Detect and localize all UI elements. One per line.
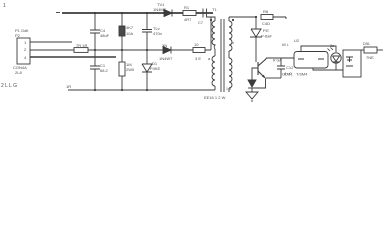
- svg-text:C12: C12: [286, 65, 294, 70]
- wire R9 right: [377, 49, 383, 51]
- diode D2 label: [159, 43, 173, 61]
- svg-text:470n: 470n: [153, 31, 162, 36]
- wire LED to J2: [336, 63, 343, 70]
- transformer T1 primary winding: [207, 17, 216, 56]
- wire pin1: [30, 41, 72, 43]
- wire top bus: [62, 12, 213, 14]
- fuse F1: [74, 48, 88, 53]
- resistor RV1: [119, 13, 134, 50]
- svg-text:R1: R1: [184, 5, 190, 10]
- diode D2: [163, 47, 171, 54]
- transformer pin label: [226, 87, 231, 91]
- svg-text:1N4W7: 1N4W7: [159, 56, 173, 61]
- tick mark: [56, 12, 60, 14]
- wire J2 to R9: [361, 49, 364, 51]
- svg-text:U2: U2: [294, 38, 300, 43]
- capacitor C7: [198, 9, 207, 26]
- wire secondary top: [229, 16, 256, 18]
- wire R8 right: [273, 17, 286, 19]
- resistor R1: [183, 5, 196, 22]
- svg-text:10A: 10A: [126, 31, 133, 36]
- diode D7: [248, 80, 256, 88]
- zener D6: [250, 28, 272, 39]
- resistor R2: [193, 42, 205, 61]
- svg-text:10: 10: [194, 42, 199, 47]
- fuse F1 label: [76, 43, 87, 48]
- transformer T1 aux winding: [208, 56, 215, 90]
- resistor RV2: [119, 50, 135, 90]
- svg-text:P.E: P.E: [263, 28, 269, 33]
- wire pin3: [30, 56, 116, 58]
- capacitor C1: [90, 50, 109, 90]
- connector J1 value label: [13, 65, 27, 75]
- svg-text:C7: C7: [198, 20, 204, 25]
- svg-text:1R: 1R: [66, 84, 71, 89]
- sheet number 2: [1, 83, 17, 89]
- svg-text:48uF: 48uF: [100, 33, 110, 38]
- svg-text:P2: P2: [15, 33, 21, 38]
- svg-text:R8: R8: [263, 9, 269, 14]
- svg-text:GD2 |: GD2 |: [282, 72, 292, 77]
- transformer T1 value label: [204, 95, 226, 100]
- svg-text:1: 1: [3, 3, 6, 9]
- connector J1: [17, 38, 30, 64]
- node dots on buses: [94, 12, 148, 91]
- svg-text:T/3M4: T/3M4: [296, 72, 308, 77]
- node collector junction: [255, 16, 257, 18]
- wire zener to transistor: [255, 37, 257, 62]
- svg-text:P-6aF: P-6aF: [261, 34, 272, 39]
- transformer T1 core: [221, 19, 224, 92]
- IC U2: [294, 52, 328, 69]
- wire diode to ground: [251, 88, 253, 92]
- svg-text:T1: T1: [212, 7, 217, 12]
- connector J1 label: [15, 28, 29, 38]
- svg-text:3 E: 3 E: [195, 56, 201, 61]
- svg-text:P4KE: P4KE: [150, 66, 161, 71]
- capacitor C4: [90, 13, 110, 50]
- svg-text:C4D: C4D: [262, 21, 270, 26]
- sheet number 1: [3, 3, 6, 9]
- svg-text:EE16 1 2 W: EE16 1 2 W: [204, 95, 226, 100]
- svg-text:60 L: 60 L: [282, 43, 289, 47]
- wire collector bus: [266, 58, 296, 63]
- svg-text:1 3: 1 3: [226, 87, 231, 91]
- LED D4: [328, 43, 342, 63]
- connector J2: [343, 50, 361, 77]
- svg-text:2L8: 2L8: [15, 70, 22, 75]
- svg-text:2 L L G: 2 L L G: [1, 83, 17, 89]
- transformer T1 secondary winding: [229, 17, 234, 92]
- zener D2: [142, 50, 161, 90]
- resistor R9 label: [363, 41, 374, 60]
- transistor Q1: [258, 59, 266, 79]
- resistor R8: [261, 9, 273, 26]
- transformer T1 label: [212, 7, 217, 12]
- ground: [246, 92, 258, 102]
- capacitor C12: [266, 58, 295, 78]
- diode D1 label: [153, 2, 167, 12]
- wire U2 top: [301, 46, 336, 52]
- resistor R9: [364, 47, 377, 53]
- wire pin2 (mid bus): [30, 49, 211, 51]
- svg-text:68.2: 68.2: [100, 68, 109, 73]
- wire base left: [252, 68, 258, 80]
- wire emitter to ground: [252, 79, 266, 89]
- IC U2 value label: [282, 72, 308, 77]
- svg-text:4K7: 4K7: [126, 25, 134, 30]
- wire collector up: [265, 58, 267, 59]
- diode D1: [164, 10, 172, 17]
- svg-text:3z: 3z: [330, 43, 334, 48]
- bottom bus label: [66, 84, 71, 89]
- wire zener branch: [255, 17, 257, 29]
- wire bottom bus: [68, 89, 215, 91]
- wire U2 bottom: [313, 68, 336, 70]
- IC U2 pin label: [282, 43, 289, 47]
- IC U2 label: [294, 38, 300, 43]
- capacitor C5: [142, 13, 162, 50]
- wire R2 to transformer: [210, 17, 212, 50]
- svg-text:2W0: 2W0: [126, 67, 135, 72]
- svg-text:x: x: [232, 40, 234, 45]
- svg-text:7NE: 7NE: [366, 55, 374, 60]
- svg-text:4R7: 4R7: [184, 17, 192, 22]
- svg-text:D5L: D5L: [363, 41, 371, 46]
